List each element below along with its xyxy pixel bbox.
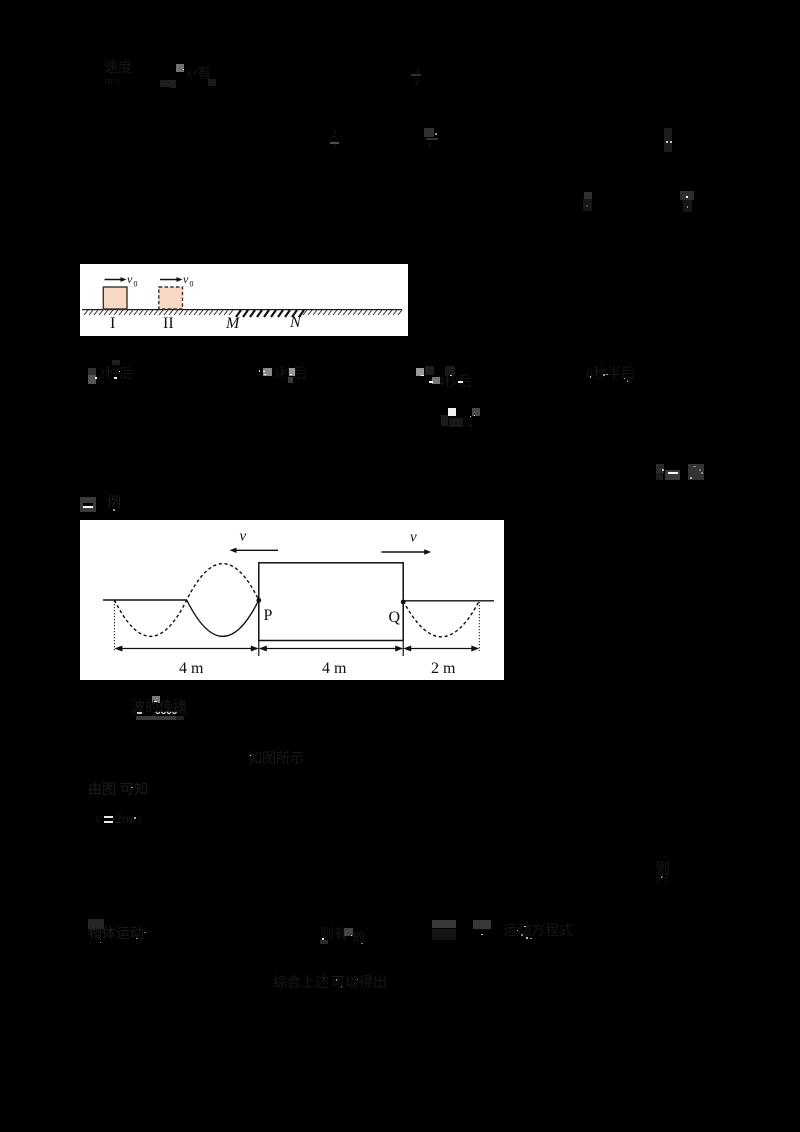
svg-text:4 m: 4 m bbox=[179, 660, 204, 677]
svg-text:v: v bbox=[240, 529, 247, 545]
svg-text:II: II bbox=[163, 315, 174, 332]
svg-text:Q: Q bbox=[389, 609, 401, 626]
svg-text:0: 0 bbox=[190, 280, 194, 289]
svg-text:I: I bbox=[110, 315, 115, 332]
svg-text:v: v bbox=[183, 272, 189, 286]
svg-text:N: N bbox=[289, 314, 302, 331]
svg-text:M: M bbox=[225, 315, 241, 332]
svg-text:4 m: 4 m bbox=[322, 660, 347, 677]
svg-text:P: P bbox=[264, 607, 273, 624]
svg-text:0: 0 bbox=[134, 280, 138, 289]
svg-text:v: v bbox=[410, 530, 417, 546]
svg-text:2 m: 2 m bbox=[431, 660, 456, 677]
svg-text:v: v bbox=[127, 272, 133, 286]
